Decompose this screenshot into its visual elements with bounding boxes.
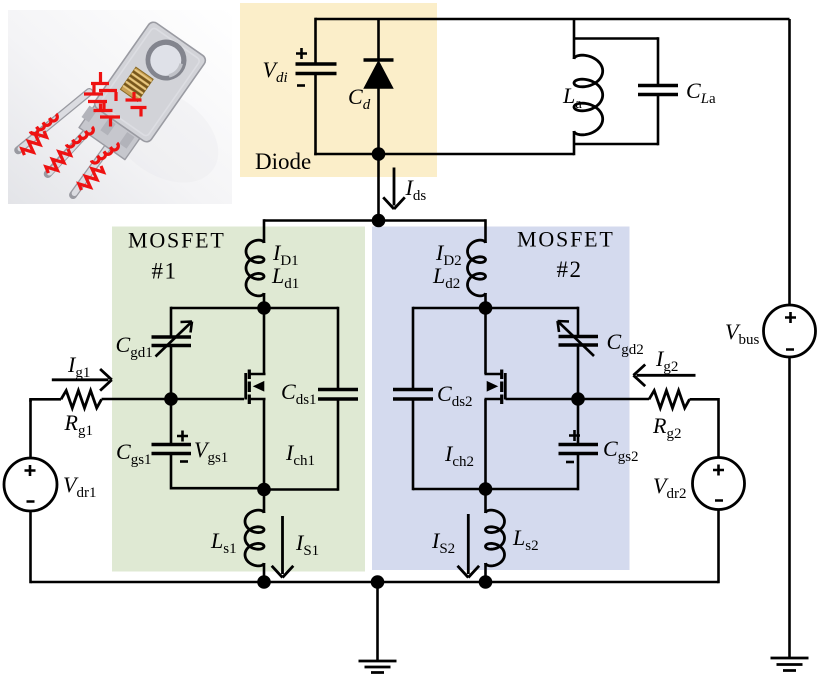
parasitic capacitor overlay A bbox=[91, 72, 117, 101]
parasitic inductor overlay leg 2 bbox=[66, 122, 95, 153]
Cgs1 minus sign bbox=[180, 460, 188, 463]
svg-text:MOSFET: MOSFET bbox=[517, 227, 615, 252]
Vdi minus sign bbox=[297, 84, 305, 87]
wire La tank left vertical upper bbox=[573, 19, 576, 59]
voltage source Vdr2 bbox=[693, 458, 745, 510]
node source bus 2 bbox=[479, 575, 493, 589]
wire La tank left vertical lower bbox=[574, 131, 658, 155]
current arrow Ig1 bbox=[52, 369, 112, 391]
wire Vdr1 lower lead bbox=[29, 511, 32, 583]
package mounting hole bbox=[137, 31, 194, 88]
capacitor Cds1 bbox=[318, 390, 358, 400]
wire CLa branch lower bbox=[657, 95, 660, 146]
wire Rg1 to gate node bbox=[102, 398, 172, 401]
wire Cds1 lower lead bbox=[337, 399, 340, 491]
wire Vdr1 upper lead bbox=[29, 399, 32, 458]
wire drain node 1 right bbox=[264, 307, 338, 310]
parasitic capacitor overlay C bbox=[126, 92, 147, 117]
capacitor Cgd2 bbox=[559, 337, 599, 346]
wire Cgs1 lower lead bbox=[170, 454, 173, 490]
wire diode branch upper bbox=[377, 19, 380, 61]
wire gs loop 2 bottom bbox=[486, 488, 579, 491]
package leg 2 bbox=[48, 110, 102, 180]
svg-text:MOSFET: MOSFET bbox=[128, 228, 226, 253]
wire Cgd2 lower lead bbox=[577, 345, 580, 399]
wire Vdr1 to Rg1 bbox=[31, 399, 62, 402]
current arrow IS1 bbox=[272, 516, 294, 578]
parasitic resistor overlay leg 1 bbox=[20, 128, 49, 159]
parasitic resistor overlay leg 3 bbox=[77, 163, 106, 194]
resistor Rg1 bbox=[61, 391, 102, 409]
wire Ids segment bbox=[377, 154, 380, 221]
parasitic capacitor overlay D bbox=[94, 104, 121, 127]
capacitor Cgs2 bbox=[559, 445, 599, 454]
node MOSFET2 drain bbox=[479, 301, 493, 315]
MOSFET U1 bbox=[246, 370, 266, 405]
wire drain bus bbox=[264, 219, 486, 222]
wire Ls2 upper lead bbox=[484, 489, 487, 513]
wire gate2 to Rg2 bbox=[578, 398, 649, 401]
wire Cgs1 upper lead bbox=[170, 399, 173, 445]
inductor Ld2 bbox=[468, 240, 486, 296]
inductor La bbox=[574, 55, 603, 135]
wire Ld2 lower lead bbox=[484, 293, 487, 308]
capacitor Cds2 bbox=[393, 390, 433, 400]
current arrow Ig2 bbox=[633, 365, 695, 387]
inductor Ls2 bbox=[486, 510, 505, 566]
node diode anode junction bbox=[372, 147, 386, 161]
svg-text:#1: #1 bbox=[152, 259, 178, 284]
wire MOSFET1 drain vertical bbox=[263, 308, 266, 374]
Cgs2 minus sign bbox=[566, 461, 574, 464]
inductor Ld1 bbox=[246, 240, 264, 296]
region MOSFET #1 highlight bbox=[112, 227, 365, 572]
photo background bbox=[8, 10, 232, 204]
Cgd1 variable arrow bbox=[156, 322, 193, 357]
wire Ld1 lower lead bbox=[263, 293, 266, 308]
wire Ls1 lower lead bbox=[263, 563, 266, 582]
node drain bus junction bbox=[372, 214, 386, 228]
wire gs loop 1 bottom bbox=[171, 487, 264, 490]
Cgs1 plus sign bbox=[177, 431, 188, 442]
parasitic resistor overlay leg 2 bbox=[44, 146, 73, 177]
Cgd2 variable arrow bbox=[558, 321, 595, 356]
current arrow Ids bbox=[383, 168, 405, 210]
parasitic inductor overlay leg 3 bbox=[91, 138, 120, 169]
node MOSFET1 drain bbox=[257, 301, 271, 315]
wire diode branch lower bbox=[377, 87, 380, 154]
package leg 3 bbox=[73, 137, 115, 196]
wire MOSFET2 source vertical bbox=[484, 399, 487, 489]
wire Cds2 lower lead bbox=[412, 399, 415, 490]
wire drain node 2 right bbox=[486, 307, 579, 310]
wire Ls2 lower lead bbox=[484, 563, 487, 582]
capacitor Vdi bbox=[296, 64, 337, 74]
wire Cgd1 lower lead bbox=[170, 346, 173, 400]
voltage source Vbus bbox=[764, 305, 816, 357]
ground Vbus bbox=[771, 658, 809, 671]
svg-text:Diode: Diode bbox=[255, 149, 311, 174]
wire CLa branch upper bbox=[657, 37, 660, 85]
diode Cd bbox=[364, 60, 394, 88]
wire Rg2 to Vdr2 bbox=[690, 399, 719, 457]
wire ds loop 1 bottom bbox=[264, 488, 338, 491]
node MOSFET1 gate bbox=[164, 392, 178, 406]
ground main bbox=[359, 661, 397, 673]
wire ground stem bbox=[376, 582, 379, 661]
region Diode highlight bbox=[240, 3, 437, 177]
wire top bus bbox=[316, 18, 790, 21]
parasitic capacitor overlay B bbox=[84, 84, 107, 110]
wire Cgs2 lower lead bbox=[577, 454, 580, 491]
package tab bbox=[92, 20, 207, 144]
wire Cgd1 upper lead bbox=[170, 307, 173, 337]
capacitor Cgs1 bbox=[152, 445, 192, 454]
svg-text:#2: #2 bbox=[557, 257, 583, 282]
wire Cds1 upper lead bbox=[337, 307, 340, 390]
wire Cds2 upper lead bbox=[412, 307, 415, 390]
wire Vdi branch lower bbox=[314, 74, 317, 156]
wire ds loop 2 bottom bbox=[413, 488, 486, 491]
capacitor Cgd1 bbox=[152, 337, 192, 346]
wire Vdr2 lower lead bbox=[717, 510, 720, 584]
wire diode loop bottom bbox=[314, 153, 574, 156]
wire Vdi branch upper bbox=[314, 18, 317, 64]
Vdi plus sign bbox=[296, 48, 307, 59]
wire MOSFET2 drain vertical bbox=[484, 308, 487, 374]
wire Ld2 upper lead bbox=[484, 219, 487, 243]
node MOSFET2 gate bbox=[571, 392, 585, 406]
wire drain node 2 left bbox=[413, 307, 486, 310]
current arrow IS2 bbox=[458, 514, 480, 578]
wire Ls1 upper lead bbox=[263, 490, 266, 514]
package gold die stripes bbox=[120, 67, 153, 101]
wire MOSFET1 source vertical bbox=[263, 399, 266, 490]
node MOSFET1 source bbox=[257, 483, 271, 497]
wire La tank top bbox=[574, 37, 658, 40]
package shadow bbox=[92, 68, 236, 202]
wire Ld1 upper lead bbox=[263, 219, 266, 243]
node MOSFET2 source bbox=[479, 482, 493, 496]
parasitic inductor overlay leg 1 bbox=[30, 109, 59, 140]
wire bottom bus bbox=[31, 581, 719, 584]
inductor Ls1 bbox=[245, 510, 264, 566]
wire gate2 to MOSFET bbox=[506, 398, 579, 401]
MOSFET U2 bbox=[485, 370, 506, 405]
resistor Rg2 bbox=[649, 391, 690, 409]
wire Cgd2 upper lead bbox=[577, 307, 580, 337]
node ground junction bbox=[371, 575, 385, 589]
Cgs2 plus sign bbox=[569, 430, 580, 441]
wire drain node 1 left bbox=[171, 307, 264, 310]
voltage source Vdr1 bbox=[4, 458, 57, 511]
wire Vbus to ground bbox=[788, 357, 791, 658]
wire right bus to Vbus bbox=[788, 19, 791, 305]
wire Cgs2 upper lead bbox=[577, 399, 580, 445]
region MOSFET #2 highlight bbox=[372, 227, 630, 571]
capacitor CLa bbox=[638, 86, 678, 95]
node source bus 1 bbox=[257, 575, 271, 589]
wire gate1 to MOSFET bbox=[171, 398, 244, 401]
package body lip bbox=[79, 101, 143, 159]
package leg 1 bbox=[18, 78, 89, 165]
